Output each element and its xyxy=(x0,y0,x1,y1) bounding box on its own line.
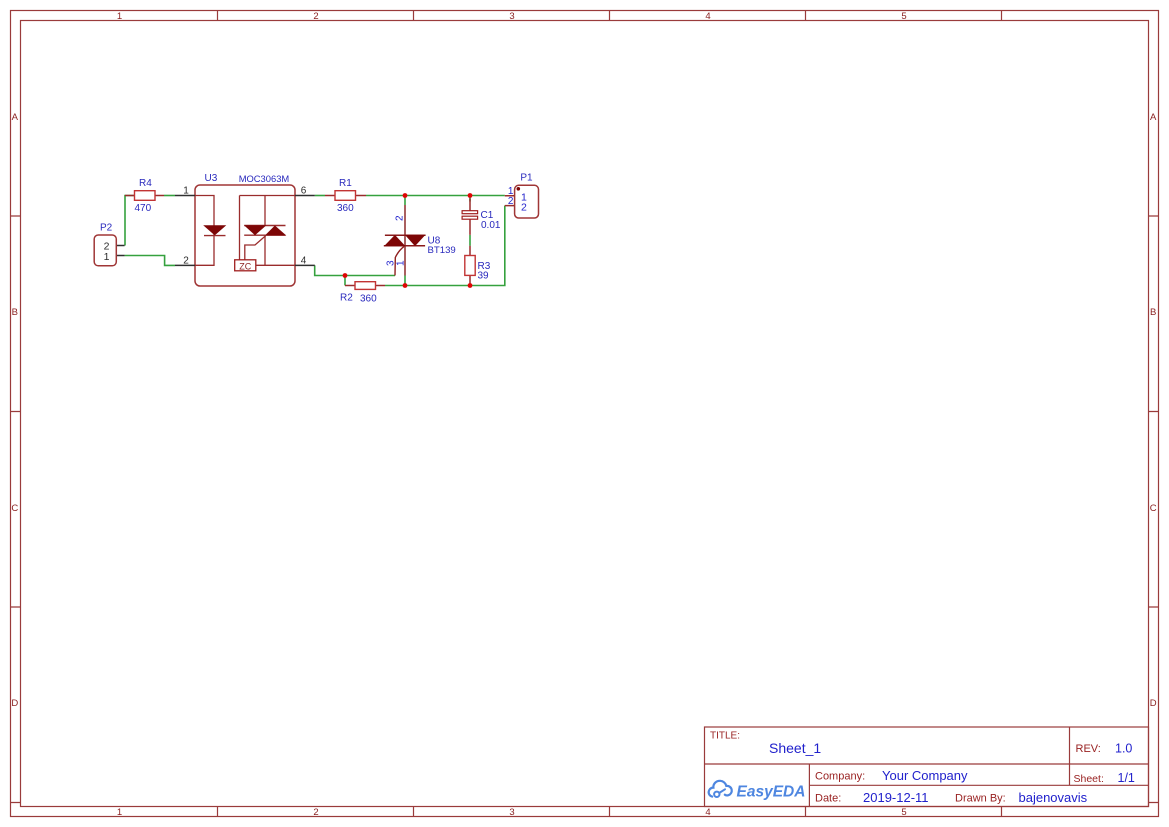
svg-text:4: 4 xyxy=(301,255,307,266)
svg-text:EasyEDA: EasyEDA xyxy=(737,784,806,801)
svg-text:360: 360 xyxy=(337,203,354,214)
svg-text:B: B xyxy=(12,307,18,318)
wire U3 pin4 to bottom node xyxy=(315,265,395,275)
svg-text:1: 1 xyxy=(117,807,122,818)
svg-text:A: A xyxy=(1150,112,1157,123)
internal LED branch xyxy=(195,196,214,266)
svg-text:ZC: ZC xyxy=(239,261,251,271)
svg-text:Sheet_1: Sheet_1 xyxy=(769,740,821,756)
svg-text:3: 3 xyxy=(509,11,514,22)
svg-text:U3: U3 xyxy=(205,173,218,184)
svg-text:6: 6 xyxy=(301,186,307,197)
svg-text:Drawn By:: Drawn By: xyxy=(955,793,1006,805)
svg-text:Sheet:: Sheet: xyxy=(1074,773,1104,785)
svg-text:D: D xyxy=(11,698,18,709)
svg-text:B: B xyxy=(1150,307,1156,318)
svg-text:D: D xyxy=(1150,698,1157,709)
wire R2 to bottom rail xyxy=(385,206,505,286)
svg-text:3: 3 xyxy=(509,807,514,818)
svg-text:2: 2 xyxy=(183,255,189,266)
resistor R2 xyxy=(345,282,385,290)
junction node B (top, C1) xyxy=(468,193,473,198)
wire C1-R3 link xyxy=(469,235,471,246)
ruler letters left xyxy=(11,112,18,709)
svg-text:4: 4 xyxy=(705,11,710,22)
wire net top rail P2.2 to R4 xyxy=(125,196,135,246)
svg-text:1/1: 1/1 xyxy=(1118,771,1135,785)
svg-text:2: 2 xyxy=(313,11,318,22)
resistor R4 xyxy=(125,191,164,201)
svg-text:2019-12-11: 2019-12-11 xyxy=(863,790,929,805)
svg-text:C: C xyxy=(11,503,18,514)
svg-text:0.01: 0.01 xyxy=(481,220,501,231)
ruler letters right xyxy=(1150,112,1157,709)
wire U8 pin1 stub xyxy=(404,275,406,286)
wire U8 pin2 stub xyxy=(404,196,406,206)
capacitor C1 xyxy=(462,199,478,235)
svg-text:3: 3 xyxy=(386,260,397,266)
wire R1 to P1 pin1 (top rail) xyxy=(366,195,505,197)
wire P2.1 to U3 pin2 xyxy=(125,256,175,266)
svg-text:MOC3063M: MOC3063M xyxy=(239,173,290,184)
svg-text:TITLE:: TITLE: xyxy=(710,731,740,742)
transistor U8 BT139 triac xyxy=(384,205,426,276)
svg-text:4: 4 xyxy=(705,807,710,818)
wire node to R2 xyxy=(344,276,346,286)
junction node A (top, U8) xyxy=(403,193,408,198)
junction node C (gate/R2) xyxy=(343,273,348,278)
svg-text:REV:: REV: xyxy=(1076,743,1101,755)
op-amp U3 MOC3063M body xyxy=(195,185,295,286)
svg-text:P2: P2 xyxy=(100,223,113,234)
svg-text:R1: R1 xyxy=(339,178,352,189)
ruler numbers top xyxy=(117,11,907,22)
svg-text:Your Company: Your Company xyxy=(882,768,968,783)
svg-text:1.0: 1.0 xyxy=(1115,742,1132,756)
svg-text:R2: R2 xyxy=(340,293,353,304)
svg-text:1: 1 xyxy=(104,251,110,263)
svg-text:470: 470 xyxy=(135,203,152,214)
connector P2 xyxy=(94,235,124,266)
svg-text:2: 2 xyxy=(508,196,514,207)
pin 4 xyxy=(295,255,315,266)
resistor R3 xyxy=(465,246,475,286)
svg-text:1: 1 xyxy=(117,11,122,22)
svg-text:bajenovavis: bajenovavis xyxy=(1019,790,1088,805)
pin 1 xyxy=(175,186,195,197)
pin 6 xyxy=(295,186,315,197)
svg-text:1: 1 xyxy=(396,260,407,266)
ZC box xyxy=(235,260,256,271)
wire U3 pin6 to R1 xyxy=(315,195,325,197)
svg-text:360: 360 xyxy=(360,294,377,305)
svg-text:A: A xyxy=(12,112,19,123)
svg-text:2: 2 xyxy=(313,807,318,818)
pin 2 xyxy=(175,255,195,266)
EasyEDA logo xyxy=(709,781,806,801)
svg-text:2: 2 xyxy=(521,201,527,213)
internal triac branch xyxy=(240,196,296,266)
svg-text:BT139: BT139 xyxy=(428,245,456,256)
connector P1 xyxy=(505,185,539,218)
resistor R1 xyxy=(325,191,366,201)
svg-text:2: 2 xyxy=(395,215,406,221)
wire R4 to U3 pin1 xyxy=(164,195,175,197)
wire C1 top stub xyxy=(469,196,471,202)
svg-text:Date:: Date: xyxy=(815,793,841,805)
ruler numbers bottom xyxy=(117,807,907,818)
junction node D (bottom, U8) xyxy=(403,283,408,288)
junction node E (bottom, R3) xyxy=(468,283,473,288)
svg-text:1: 1 xyxy=(183,186,189,197)
svg-text:R4: R4 xyxy=(139,178,152,189)
svg-text:C: C xyxy=(1150,503,1157,514)
svg-text:5: 5 xyxy=(901,807,906,818)
svg-text:P1: P1 xyxy=(520,173,533,184)
svg-text:39: 39 xyxy=(478,271,490,282)
svg-text:5: 5 xyxy=(901,11,906,22)
svg-text:Company:: Company: xyxy=(815,771,865,783)
